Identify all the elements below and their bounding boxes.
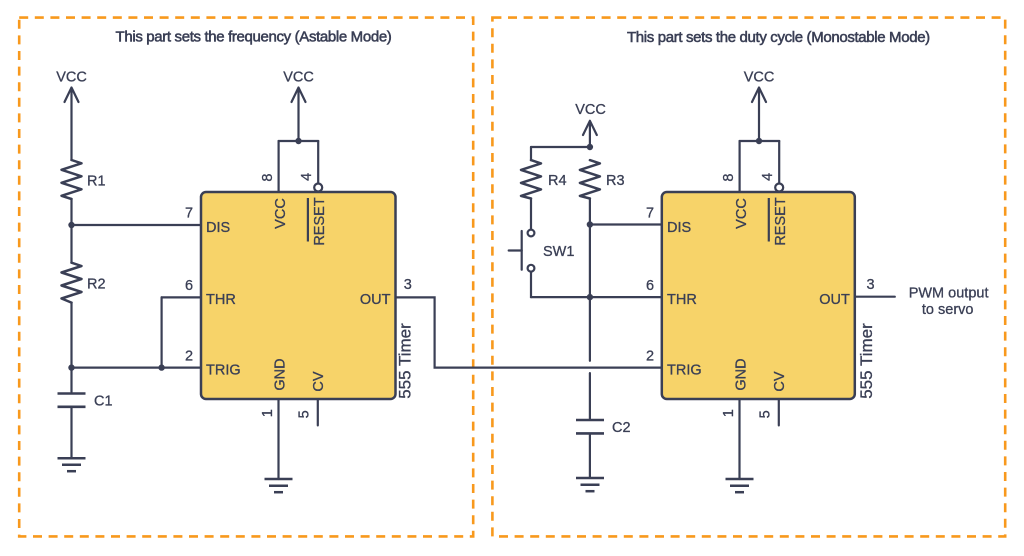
svg-text:GND: GND — [273, 358, 289, 390]
svg-text:THR: THR — [206, 292, 236, 308]
svg-text:3: 3 — [404, 277, 412, 293]
svg-text:R3: R3 — [606, 173, 625, 189]
svg-text:555 Timer: 555 Timer — [857, 323, 876, 399]
svg-text:PWM output: PWM output — [909, 286, 989, 302]
svg-text:DIS: DIS — [667, 220, 691, 236]
svg-text:2: 2 — [646, 349, 654, 365]
svg-text:8: 8 — [721, 174, 737, 182]
svg-text:CV: CV — [772, 371, 788, 391]
svg-text:GND: GND — [734, 358, 750, 390]
svg-text:3: 3 — [866, 277, 874, 293]
svg-text:4: 4 — [760, 173, 776, 181]
svg-text:5: 5 — [297, 410, 313, 418]
svg-text:VCC: VCC — [575, 102, 606, 118]
svg-text:R2: R2 — [87, 277, 106, 293]
svg-text:SW1: SW1 — [543, 244, 574, 260]
svg-text:This part sets the duty cycle: This part sets the duty cycle (Monostabl… — [627, 29, 930, 46]
svg-text:6: 6 — [185, 278, 193, 294]
svg-text:VCC: VCC — [273, 198, 289, 229]
svg-text:8: 8 — [260, 174, 276, 182]
svg-text:TRIG: TRIG — [667, 362, 702, 378]
svg-text:RESET: RESET — [773, 197, 789, 245]
svg-text:5: 5 — [758, 410, 774, 418]
svg-text:VCC: VCC — [734, 198, 750, 229]
svg-text:R4: R4 — [548, 173, 567, 189]
svg-text:7: 7 — [646, 206, 654, 222]
svg-text:VCC: VCC — [56, 69, 87, 85]
svg-text:CV: CV — [311, 371, 327, 391]
svg-text:6: 6 — [646, 278, 654, 294]
svg-text:R1: R1 — [87, 174, 106, 190]
svg-text:7: 7 — [185, 206, 193, 222]
svg-text:This part sets the frequency (: This part sets the frequency (Astable Mo… — [116, 29, 392, 46]
svg-text:DIS: DIS — [206, 220, 230, 236]
svg-text:4: 4 — [299, 173, 315, 181]
svg-text:OUT: OUT — [360, 292, 391, 308]
svg-text:OUT: OUT — [819, 292, 850, 308]
svg-text:555 Timer: 555 Timer — [396, 323, 415, 399]
svg-text:to servo: to servo — [922, 302, 974, 318]
svg-text:2: 2 — [185, 349, 193, 365]
svg-text:1: 1 — [260, 409, 276, 417]
svg-text:1: 1 — [721, 409, 737, 417]
svg-text:THR: THR — [667, 292, 697, 308]
svg-text:VCC: VCC — [744, 69, 775, 85]
svg-text:C1: C1 — [94, 393, 113, 409]
svg-text:TRIG: TRIG — [206, 362, 241, 378]
svg-text:RESET: RESET — [312, 197, 328, 245]
svg-text:VCC: VCC — [283, 69, 314, 85]
svg-text:C2: C2 — [612, 420, 631, 436]
